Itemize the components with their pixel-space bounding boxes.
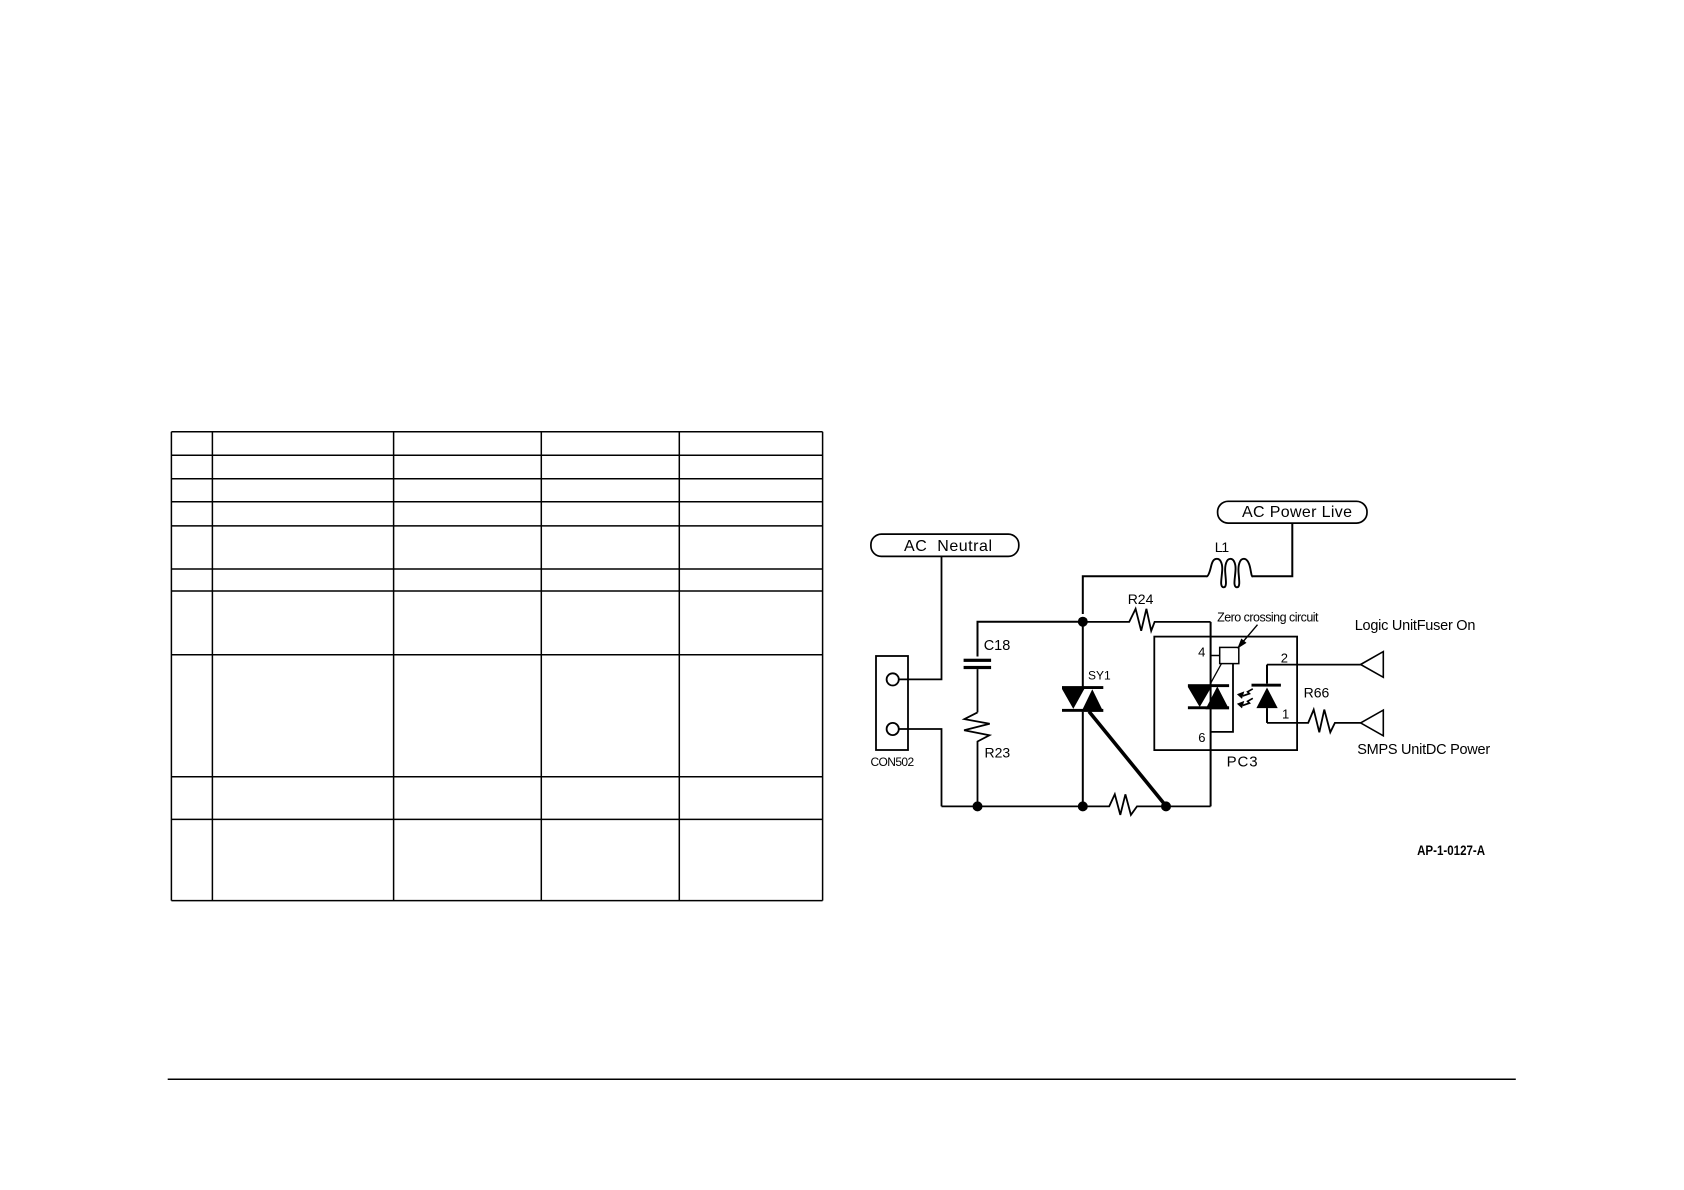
node junction rail-gate: [1161, 801, 1171, 811]
capacitor C18: [964, 638, 1011, 669]
wire pin4 column through PC3 to rail: [1210, 685, 1212, 806]
triac SY1: [1062, 668, 1111, 806]
resistor R23: [964, 712, 1010, 806]
node AC Power Live: [1218, 501, 1367, 523]
svg-text:AP-1-0127-A: AP-1-0127-A: [1417, 843, 1485, 858]
svg-text:4: 4: [1198, 645, 1205, 660]
svg-text:AC Neutral: AC Neutral: [904, 538, 992, 555]
svg-text:R23: R23: [985, 745, 1011, 761]
terminal triangle logic: [1361, 652, 1384, 678]
wire CON502 pin2 to bottom rail: [899, 729, 942, 806]
wire SY1 gate diagonal: [1089, 712, 1166, 807]
wire C18 to R23: [977, 669, 979, 712]
wire zero crossing diagonal to triac: [1211, 664, 1222, 683]
label Zero crossing circuit with arrow: [1217, 611, 1319, 649]
svg-text:R66: R66: [1304, 685, 1330, 701]
svg-text:PC3: PC3: [1227, 753, 1258, 770]
node junction rail-SY1: [1078, 801, 1088, 811]
svg-text:CON502: CON502: [871, 755, 915, 769]
wire junction down to SY1: [1082, 622, 1084, 687]
node junction rail-R23: [973, 801, 983, 811]
wire CON502 pin1 to AC Neutral: [899, 556, 942, 679]
svg-text:2: 2: [1281, 651, 1288, 666]
svg-text:Zero crossing circuit: Zero crossing circuit: [1217, 611, 1319, 625]
svg-text:1: 1: [1282, 707, 1289, 722]
svg-text:AC Power Live: AC Power Live: [1242, 504, 1352, 521]
resistor R24: [1083, 591, 1211, 631]
svg-text:C18: C18: [984, 638, 1011, 654]
resistor R66: [1267, 685, 1361, 733]
parts table grid (empty): [171, 432, 822, 901]
wire pin 2 to logic terminal: [1267, 664, 1361, 666]
svg-text:SMPS UnitDC Power: SMPS UnitDC Power: [1357, 742, 1490, 758]
optocoupler PC3 box: [1154, 637, 1297, 771]
node AC Neutral: [871, 534, 1019, 556]
connector CON502: [871, 656, 915, 769]
svg-text:L1: L1: [1215, 539, 1230, 555]
wire C18 branch horizontal: [978, 622, 1083, 657]
svg-text:SY1: SY1: [1088, 668, 1111, 682]
terminal triangle SMPS: [1361, 710, 1384, 736]
svg-text:Logic UnitFuser On: Logic UnitFuser On: [1355, 618, 1476, 634]
inductor L1: [1207, 539, 1253, 587]
wire R24 to PC3 pin4 column: [1210, 622, 1212, 685]
svg-text:6: 6: [1198, 730, 1205, 745]
footer rule: [168, 1078, 1516, 1080]
node junction top (R24 tap): [1078, 617, 1088, 627]
wire L1 to left corner: [1083, 576, 1207, 614]
light arrows: [1243, 689, 1253, 706]
wire bottom rail with gate resistor: [942, 794, 1211, 815]
svg-text:R24: R24: [1128, 591, 1154, 607]
LED in PC3: [1252, 665, 1281, 723]
photo-triac in PC3: [1188, 684, 1229, 709]
wire AC Power Live to L1: [1252, 523, 1293, 576]
zero crossing circuit block: [1211, 647, 1239, 663]
wire zero crossing block to gate: [1211, 664, 1233, 732]
